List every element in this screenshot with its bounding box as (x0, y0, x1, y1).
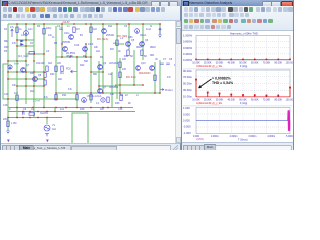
wire col x143 (142, 24, 144, 60)
svg-text:2k: 2k (118, 50, 121, 53)
svg-text:C9: C9 (23, 108, 27, 111)
wire emitter join y57 (56, 56, 91, 58)
svg-text:R3: R3 (37, 25, 41, 28)
plot3 magenta burst (288, 110, 290, 131)
svg-text:4k7: 4k7 (76, 28, 81, 31)
wire left rail (7, 24, 9, 131)
svg-text:0.500: 0.500 (183, 112, 190, 116)
resistor R2 (29, 52, 35, 54)
current source I3 (8, 65, 12, 69)
svg-text:9k1: 9k1 (60, 72, 65, 75)
resistor R3 (73, 27, 75, 33)
svg-text:220: 220 (122, 58, 127, 61)
wire col x86 (85, 44, 87, 58)
svg-text:F (log): F (log) (240, 102, 247, 105)
svg-text:-1.000: -1.000 (183, 131, 191, 135)
svg-text:60.00K: 60.00K (251, 98, 259, 101)
svg-text:T (Secs): T (Secs) (238, 138, 248, 141)
svg-text:VAS-Buf: VAS-Buf (109, 86, 118, 89)
plot2 frame (196, 70, 290, 97)
sine source V1 (44, 125, 50, 131)
ground G2 (45, 134, 49, 137)
svg-text:R22: R22 (80, 64, 85, 67)
wire row y40 (17, 39, 34, 41)
resistor R5 (116, 40, 118, 46)
wire top V+ rail (8, 23, 161, 25)
plot1 y-axis labels (183, 34, 193, 63)
wire col x91 (90, 24, 92, 103)
svg-text:90.00m: 90.00m (183, 69, 193, 73)
svg-text:40.00K: 40.00K (227, 61, 235, 64)
svg-text:D5: D5 (4, 50, 8, 53)
svg-text:2N5551: 2N5551 (62, 41, 71, 44)
transistor Q7 (21, 68, 26, 73)
wire row y79 (8, 78, 44, 80)
svg-text:47k: 47k (12, 42, 17, 45)
svg-text:68: 68 (144, 55, 147, 58)
wire col x155 (154, 62, 156, 93)
transistor Q11 (136, 66, 141, 71)
svg-text:B1: B1 (80, 34, 84, 37)
svg-text:47u: 47u (44, 96, 49, 99)
svg-text:J310: J310 (74, 44, 80, 47)
right window buttons (262, 1, 272, 8)
wire col x129 (128, 24, 130, 50)
resistor R17 (76, 95, 78, 101)
wire row y72 left (8, 71, 44, 73)
svg-text:J1: J1 (52, 36, 55, 39)
plot1 distortion trace (flat) (195, 59, 291, 61)
svg-text:80.00K: 80.00K (274, 98, 282, 101)
plot2 harmonic stems (195, 79, 291, 97)
left bottom tab bar (1, 143, 180, 150)
svg-text:V1: V1 (52, 124, 56, 127)
svg-text:0R22: 0R22 (136, 46, 142, 49)
plot1 x-axis labels (192, 61, 295, 64)
svg-text:R5: R5 (54, 42, 58, 45)
current source I5b (101, 98, 105, 102)
svg-text:1.000: 1.000 (183, 106, 190, 110)
svg-text:Vb: Vb (155, 58, 159, 61)
left vertical scrollbar (175, 21, 181, 143)
marker arrow left (7, 140, 10, 143)
input arrow marker (71, 70, 77, 73)
capacitor C5 (120, 95, 122, 101)
svg-text:3.000m: 3.000m (248, 135, 256, 138)
svg-text:30.00m: 30.00m (183, 88, 193, 92)
right bottom bar (182, 142, 293, 150)
resistor R15 (7, 121, 9, 127)
svg-text:Zb: Zb (128, 102, 131, 105)
svg-text:C12: C12 (108, 73, 113, 76)
svg-text:C6: C6 (124, 25, 128, 28)
resistor R20 (44, 73, 46, 78)
svg-text:C16: C16 (118, 108, 123, 111)
wire col x160 mid (159, 60, 161, 93)
wire row y86 left (17, 85, 44, 87)
wire col x62 (61, 24, 63, 58)
svg-text:0.1: 0.1 (96, 102, 100, 105)
wire col x34 (33, 24, 35, 118)
svg-text:F (log): F (log) (240, 65, 247, 68)
wire output rail y93 (56, 92, 160, 94)
svg-text:10m: 10m (28, 28, 33, 31)
svg-text:C3: C3 (46, 50, 50, 53)
svg-text:220: 220 (122, 68, 127, 71)
svg-text:+52.8V: +52.8V (62, 21, 70, 24)
plot2 grid (196, 70, 290, 97)
svg-text:Q7: Q7 (26, 64, 30, 67)
ground G1 (6, 131, 10, 134)
wire descend loop (72, 113, 88, 148)
resistor R14 (29, 113, 35, 115)
svg-text:C14: C14 (4, 93, 9, 96)
capacitor C1 (43, 29, 45, 35)
svg-text:Q6: Q6 (145, 39, 149, 42)
marker arrow mid (46, 140, 49, 143)
svg-text:C7: C7 (163, 58, 167, 61)
svg-text:R26: R26 (115, 102, 120, 105)
wire row y54 (26, 53, 44, 55)
svg-text:MJE15034: MJE15034 (139, 72, 151, 75)
svg-text:0.600%: 0.600% (183, 46, 193, 50)
svg-text:4.000m: 4.000m (267, 135, 275, 138)
transistor Q5 (126, 42, 131, 47)
svg-text:-0.500: -0.500 (183, 125, 191, 129)
wire stub x55 (54, 108, 56, 112)
svg-text:IDC (3mA): IDC (3mA) (97, 38, 108, 41)
transistor Q9 (98, 65, 103, 70)
resistor R22b (55, 95, 57, 101)
plot1 frame (196, 36, 290, 61)
svg-text:1k5: 1k5 (57, 62, 62, 65)
probe arrow Probe1 (160, 89, 164, 91)
zener D1 (11, 29, 14, 37)
svg-text:2N5401: 2N5401 (106, 34, 115, 37)
svg-text:1k2: 1k2 (93, 28, 98, 31)
ground G3 (158, 35, 162, 38)
resistor R18 (90, 95, 92, 101)
resistor R7 (141, 50, 143, 56)
svg-text:[2.0_Unit]: [2.0_Unit] (18, 55, 29, 58)
svg-text:Q10: Q10 (141, 62, 146, 65)
resistor R12 (154, 75, 156, 81)
svg-text:68: 68 (130, 55, 133, 58)
svg-text:IDC (3k0): IDC (3k0) (117, 35, 127, 38)
plot3 baseline trace (196, 120, 290, 122)
svg-text:47n: 47n (167, 76, 172, 79)
junction dots (61, 43, 62, 44)
wire row y46 (17, 45, 34, 47)
wire col x44 (43, 24, 45, 108)
wire bottom rail B (8, 111, 135, 113)
wire feedback loop left (3, 64, 8, 99)
svg-text:1.000%: 1.000% (183, 34, 193, 38)
svg-text:10u: 10u (48, 34, 53, 37)
svg-text:50.00m: 50.00m (183, 82, 193, 86)
svg-text:70.00K: 70.00K (263, 61, 271, 64)
svg-text:Harmonic_n 60Hz THD: Harmonic_n 60Hz THD (230, 31, 258, 35)
plot3 frame (196, 108, 290, 134)
resistor R10 (119, 62, 121, 68)
transistor Q1 (69, 35, 74, 40)
svg-text:J310: J310 (88, 43, 94, 46)
svg-text:4mA: 4mA (146, 28, 151, 31)
svg-text:30mA: 30mA (140, 34, 147, 37)
svg-text:m(Distortion(R,y))_y_Ra: m(Distortion(R,y))_y_Ra (196, 102, 222, 105)
svg-text:2u2: 2u2 (60, 108, 65, 111)
left title bar (1, 0, 181, 6)
svg-text:60.00K: 60.00K (251, 61, 259, 64)
svg-text:1k4: 1k4 (52, 128, 57, 131)
svg-text:1N: 1N (30, 42, 33, 45)
wire bottom rail A (8, 107, 133, 109)
left window buttons (151, 1, 160, 8)
svg-text:SwOff1: SwOff1 (40, 112, 48, 115)
capacitor C2 (59, 28, 63, 30)
svg-text:1N4148: 1N4148 (36, 62, 45, 65)
wire col x17 (16, 24, 18, 118)
wire row y99 (3, 98, 77, 100)
svg-text:C18: C18 (3, 104, 8, 107)
wire col x56 (55, 26, 57, 99)
plot area (182, 31, 293, 142)
svg-text:VAS-Buf: VAS-Buf (109, 62, 118, 65)
svg-text:= 0,00882%: = 0,00882% (212, 77, 232, 81)
svg-text:IDC: IDC (110, 48, 114, 51)
svg-text:m(Distortion(R,y))_y_Ra: m(Distortion(R,y))_y_Ra (196, 65, 222, 68)
svg-text:70.00K: 70.00K (263, 98, 271, 101)
svg-text:C4: C4 (120, 94, 124, 97)
resistor R21 (44, 80, 46, 85)
svg-text:1.0M: 1.0M (11, 122, 16, 125)
plot3 x-axis labels (193, 135, 294, 138)
svg-text:Q8: Q8 (38, 74, 42, 77)
resistor R19 (16, 95, 18, 101)
svg-text:R20: R20 (50, 73, 55, 76)
svg-text:1k: 1k (19, 28, 22, 31)
resistor R9 (55, 66, 57, 72)
svg-text:In: In (9, 108, 12, 111)
plot3 y-axis labels (183, 106, 191, 135)
svg-text:1k0: 1k0 (30, 72, 35, 75)
capacitor C6 (23, 111, 25, 115)
transistor Q2 (63, 47, 68, 52)
wire col x117 (116, 24, 118, 99)
resistor R16 (61, 66, 63, 72)
svg-text:1k2: 1k2 (96, 50, 101, 53)
left toolbars (1, 6, 180, 21)
wire col x160 top (159, 24, 161, 35)
svg-text:2k0: 2k0 (58, 78, 63, 81)
schematic canvas (1, 21, 175, 143)
svg-text:2.2mA: 2.2mA (33, 100, 40, 103)
wire row y85 right (115, 84, 143, 86)
wire vsource drop x47 (46, 118, 48, 125)
resistor R6 (127, 50, 129, 56)
wire row y72 right (91, 71, 103, 73)
plot1 grid (196, 36, 290, 61)
svg-text:R24: R24 (62, 94, 67, 97)
svg-text:22: 22 (125, 94, 128, 97)
wire col x112 (111, 72, 113, 108)
svg-text:560: 560 (84, 60, 89, 63)
svg-text:0.400%: 0.400% (183, 52, 193, 56)
svg-text:PD2: PD2 (66, 68, 71, 71)
svg-text:10k: 10k (12, 84, 17, 87)
svg-text:40.00K: 40.00K (227, 98, 235, 101)
svg-text:Probe1: Probe1 (165, 89, 173, 92)
wire col x26 (25, 24, 27, 104)
svg-text:0.800%: 0.800% (183, 40, 193, 44)
svg-text:2k2: 2k2 (30, 90, 35, 93)
transistor Q10 (98, 89, 103, 94)
svg-text:1k: 1k (70, 55, 73, 58)
svg-text:R1: R1 (4, 28, 8, 31)
wire col x99 (98, 61, 100, 93)
svg-text:220p: 220p (3, 118, 9, 121)
resistor R11 (119, 72, 121, 78)
svg-text:THD = 0,54%: THD = 0,54% (212, 81, 234, 85)
resistor R8 (46, 66, 48, 72)
plot2 y-axis labels (183, 69, 193, 99)
wire col x77 long (76, 56, 78, 108)
svg-text:IDC 6mA: IDC 6mA (126, 76, 136, 79)
wire col x103 (102, 24, 104, 93)
diode D3 (20, 43, 24, 46)
svg-text:4R7: 4R7 (100, 108, 105, 111)
svg-text:47u: 47u (10, 26, 15, 29)
svg-text:680: 680 (93, 73, 98, 76)
wire col x134 (133, 50, 135, 85)
svg-text:5.000m: 5.000m (286, 135, 293, 138)
capacitor C4 (166, 63, 170, 65)
svg-text:1n: 1n (67, 25, 70, 28)
svg-text:0.000: 0.000 (183, 119, 190, 123)
current source I2 (135, 29, 140, 34)
transistor Q6 (140, 42, 145, 47)
svg-text:R28: R28 (80, 108, 85, 111)
svg-text:C8: C8 (169, 58, 173, 61)
wire row y61 (8, 60, 26, 62)
svg-text:220p: 220p (46, 27, 52, 30)
current source I1 (24, 31, 29, 36)
svg-text:R11: R11 (108, 25, 113, 28)
svg-text:Q5: Q5 (131, 39, 135, 42)
diode D2 (20, 40, 24, 43)
svg-text:6mA: 6mA (14, 63, 19, 66)
transistor Q4 (102, 29, 107, 34)
resistor R13 (107, 97, 109, 103)
svg-text:80.00K: 80.00K (274, 61, 282, 64)
svg-text:100.00K: 100.00K (286, 98, 293, 101)
right title bar (182, 0, 293, 6)
current source I4 (82, 98, 87, 103)
zener D4 (159, 28, 162, 34)
transistor Q3 (83, 47, 88, 52)
svg-text:50.00K: 50.00K (239, 98, 247, 101)
svg-text:70.00m: 70.00m (183, 75, 193, 79)
svg-text:0R1: 0R1 (150, 54, 155, 57)
svg-text:47k: 47k (68, 88, 73, 91)
wire row y86 right (99, 85, 117, 87)
plot2 x-axis labels (192, 98, 295, 101)
resistor R1 (16, 27, 18, 33)
wire col x120 (119, 58, 121, 95)
wire bottom rail C (8, 117, 62, 119)
svg-text:100n: 100n (64, 32, 70, 35)
svg-text:1.000m: 1.000m (211, 135, 219, 138)
svg-text:50.00K: 50.00K (239, 61, 247, 64)
svg-text:Q4: Q4 (103, 62, 107, 65)
svg-text:2.000m: 2.000m (230, 135, 238, 138)
svg-text:3k3: 3k3 (48, 62, 53, 65)
svg-text:0R22: 0R22 (150, 46, 156, 49)
svg-text:C2: C2 (57, 25, 61, 28)
svg-text:22k: 22k (94, 46, 99, 49)
right toolbars (182, 6, 293, 31)
svg-text:v(VM1): v(VM1) (196, 138, 204, 141)
svg-text:R33: R33 (4, 46, 9, 49)
svg-text:L1: L1 (136, 94, 139, 97)
svg-text:100.00K: 100.00K (286, 61, 293, 64)
resistor R4 (90, 27, 92, 33)
plot3 grid (196, 108, 290, 134)
transistor Q8 (33, 77, 38, 82)
transistor Q12 (150, 66, 155, 71)
svg-text:4u7: 4u7 (14, 92, 19, 95)
svg-text:VCCS-1 2mA: VCCS-1 2mA (87, 95, 102, 98)
wire input y44 (115, 43, 124, 45)
plot2 annotation arrow (199, 79, 212, 88)
capacitor C3 (160, 63, 164, 65)
